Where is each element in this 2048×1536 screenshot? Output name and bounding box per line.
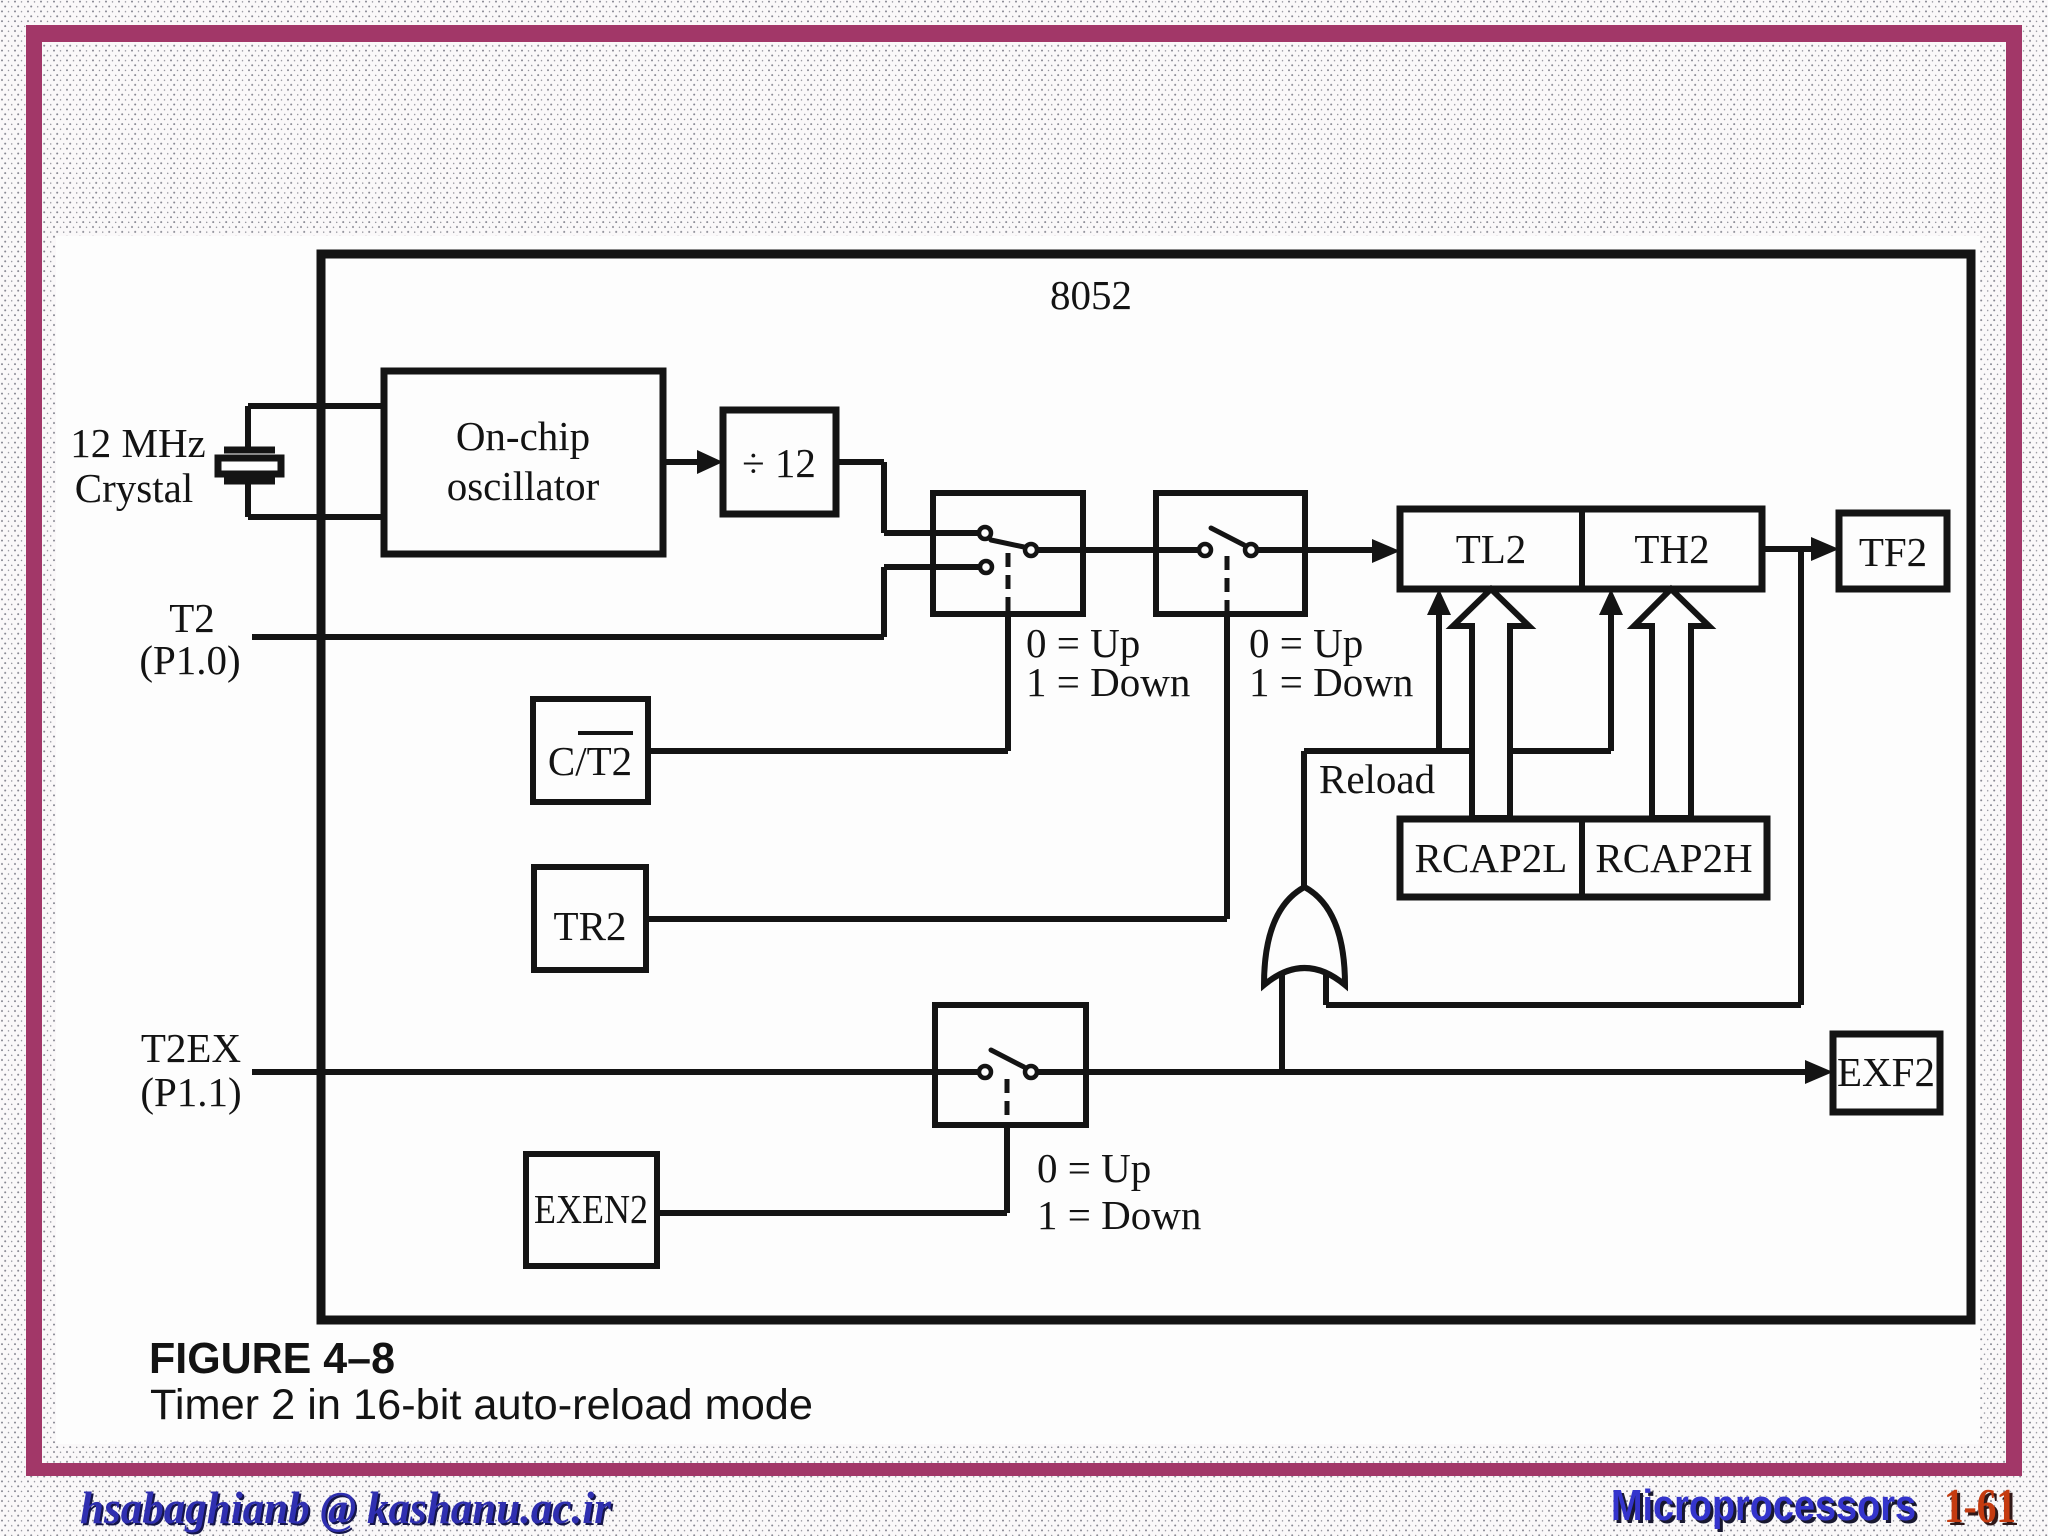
svg-text:÷ 12: ÷ 12	[742, 440, 816, 486]
svg-text:0 = Up: 0 = Up	[1037, 1145, 1151, 1191]
svg-text:8052: 8052	[1050, 272, 1132, 318]
svg-text:1 = Down: 1 = Down	[1026, 659, 1190, 705]
svg-text:C/T2: C/T2	[548, 738, 632, 784]
svg-text:TL2: TL2	[1456, 526, 1527, 572]
svg-text:1 = Down: 1 = Down	[1037, 1192, 1201, 1238]
svg-text:Timer 2 in 16-bit auto-reload: Timer 2 in 16-bit auto-reload mode	[150, 1381, 813, 1429]
svg-text:EXEN2: EXEN2	[534, 1186, 648, 1232]
svg-text:(P1.1): (P1.1)	[140, 1069, 241, 1115]
svg-text:hsabaghianb @ kashanu.ac.ir: hsabaghianb @ kashanu.ac.ir	[80, 1482, 612, 1533]
svg-text:1-61: 1-61	[1944, 1478, 2016, 1533]
svg-text:On-chip: On-chip	[456, 413, 590, 459]
svg-text:12 MHz: 12 MHz	[70, 420, 206, 466]
svg-text:Reload: Reload	[1319, 756, 1435, 802]
svg-text:(P1.0): (P1.0)	[139, 637, 240, 683]
svg-text:RCAP2H: RCAP2H	[1595, 835, 1752, 881]
svg-text:RCAP2L: RCAP2L	[1415, 835, 1568, 881]
svg-text:TH2: TH2	[1634, 526, 1709, 572]
svg-text:T2: T2	[169, 595, 215, 641]
svg-text:EXF2: EXF2	[1837, 1049, 1935, 1095]
svg-text:Microprocessors: Microprocessors	[1611, 1481, 1916, 1530]
svg-text:FIGURE 4–8: FIGURE 4–8	[149, 1334, 395, 1383]
svg-text:T2EX: T2EX	[141, 1025, 241, 1071]
svg-text:TR2: TR2	[554, 903, 627, 949]
svg-text:Crystal: Crystal	[75, 465, 193, 511]
svg-text:1 = Down: 1 = Down	[1249, 659, 1413, 705]
svg-text:TF2: TF2	[1859, 529, 1927, 575]
svg-text:oscillator: oscillator	[447, 463, 600, 509]
